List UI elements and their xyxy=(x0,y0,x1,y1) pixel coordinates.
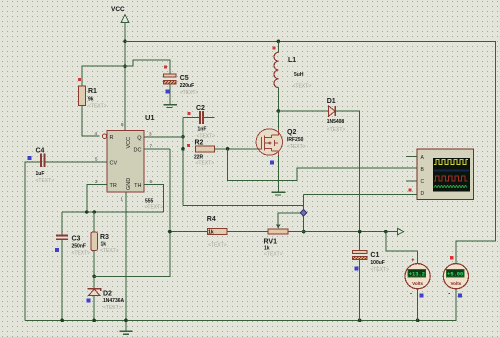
scope trace channel C red xyxy=(434,176,468,181)
node rail C1 xyxy=(358,319,362,323)
svg-text:-: - xyxy=(410,292,412,298)
wire drain node to D1 xyxy=(278,110,328,112)
svg-text:<TEXT>: <TEXT> xyxy=(208,243,227,249)
ground Q2 xyxy=(272,192,286,195)
wire R2 right to gate xyxy=(214,148,256,150)
svg-text:VCC: VCC xyxy=(111,6,125,13)
wire Q2 source to ground xyxy=(277,155,279,192)
svg-text:R2: R2 xyxy=(195,140,204,147)
svg-text:R: R xyxy=(110,135,114,141)
svg-text:C5: C5 xyxy=(180,75,189,82)
ground main xyxy=(120,331,133,334)
svg-text:-: - xyxy=(448,292,450,298)
svg-text:TR: TR xyxy=(110,183,117,189)
wire RV1 wiper xyxy=(278,213,304,228)
potentiometer RV1 xyxy=(264,213,288,258)
ground under C5 xyxy=(163,105,177,108)
svg-text:D1: D1 xyxy=(327,98,336,105)
node drain junction xyxy=(277,109,281,113)
wire VCC top rail to right edge xyxy=(125,41,495,263)
svg-text:1k: 1k xyxy=(101,242,107,248)
diode D2 zener xyxy=(87,276,125,311)
wire TR node horizontal xyxy=(62,211,163,213)
svg-text:C1: C1 xyxy=(370,252,379,259)
svg-text:IRF250: IRF250 xyxy=(287,137,304,143)
pin scope A stub xyxy=(406,156,417,158)
svg-text:RV1: RV1 xyxy=(264,239,278,246)
wire to scope D xyxy=(304,193,417,195)
node probe diamond xyxy=(300,210,306,216)
wire TH pin6 tie xyxy=(144,185,163,213)
capacitor C2 xyxy=(183,105,215,140)
svg-text:D: D xyxy=(421,191,425,197)
svg-text:<TEXT>: <TEXT> xyxy=(287,144,306,150)
pin 4 inversion bubble xyxy=(102,134,106,138)
wire C3 bottom to rail xyxy=(61,240,63,320)
node rail GND xyxy=(124,319,128,323)
wire Q column down xyxy=(182,117,184,205)
wire drain node to Q2 xyxy=(277,111,279,129)
wire feedback node to DC column xyxy=(94,149,170,277)
wire output feedback row xyxy=(170,231,398,233)
oscilloscope xyxy=(417,149,474,200)
svg-text:TH: TH xyxy=(134,183,141,189)
svg-text:1uF: 1uF xyxy=(36,171,45,177)
svg-text:250nF: 250nF xyxy=(72,244,86,250)
scope trace channel D green xyxy=(434,186,467,188)
node probe to output wire junction xyxy=(302,230,306,234)
transistor Q2 xyxy=(256,129,306,165)
power symbol VCC xyxy=(111,6,129,30)
svg-text:<TEXT>: <TEXT> xyxy=(100,248,119,254)
wire R1 bottom to pin4 xyxy=(82,105,100,136)
svg-text:<TEXT>: <TEXT> xyxy=(370,267,389,273)
svg-text:C3: C3 xyxy=(72,236,81,243)
svg-text:C: C xyxy=(421,179,425,185)
node VCC junction top rail xyxy=(123,40,127,44)
voltmeter right xyxy=(443,256,468,297)
svg-text:5uH: 5uH xyxy=(294,72,304,78)
node VCC junction R1/C5 branch xyxy=(123,64,127,68)
svg-text:L1: L1 xyxy=(288,57,296,64)
wire GND pin1 down xyxy=(125,192,127,331)
svg-text:Volts: Volts xyxy=(450,281,461,286)
node R4 left junction xyxy=(168,230,172,234)
pin scope B stub xyxy=(406,167,417,169)
wire DC pin7 xyxy=(144,148,170,150)
svg-text:C4: C4 xyxy=(36,148,45,155)
svg-text:D2: D2 xyxy=(103,291,112,298)
svg-text:+5.00: +5.00 xyxy=(447,272,463,278)
node rail voltmeter xyxy=(416,319,420,323)
wire branch to R1 xyxy=(82,66,125,86)
svg-text:<TEXT>: <TEXT> xyxy=(293,84,312,90)
svg-text:GND: GND xyxy=(126,178,132,190)
node Q junction xyxy=(181,135,185,139)
svg-text:Q2: Q2 xyxy=(287,129,296,136)
capacitor C1 xyxy=(353,250,389,273)
wire bottom rail xyxy=(25,289,456,321)
svg-text:R4: R4 xyxy=(207,216,216,223)
inductor L1 xyxy=(273,40,311,90)
wire left voltmeter minus to rail xyxy=(417,289,419,321)
svg-text:<TEXT>: <TEXT> xyxy=(327,127,346,133)
svg-text:C2: C2 xyxy=(196,105,205,112)
wire TR pin2 to node xyxy=(87,185,107,213)
svg-text:9k: 9k xyxy=(88,97,94,103)
svg-text:<TEXT>: <TEXT> xyxy=(88,104,107,110)
wire C5 to ground xyxy=(169,84,171,105)
scope trace channel B blue xyxy=(434,170,469,172)
svg-text:U1: U1 xyxy=(145,113,155,122)
pin scope D stub xyxy=(406,193,417,195)
svg-text:Q: Q xyxy=(137,135,142,141)
node gate junction xyxy=(226,147,230,151)
svg-text:100uF: 100uF xyxy=(370,260,384,266)
node rail C3 xyxy=(60,319,64,323)
svg-text:<TEXT>: <TEXT> xyxy=(36,178,55,184)
svg-text:DC: DC xyxy=(134,147,142,153)
svg-text:1nF: 1nF xyxy=(198,127,207,133)
svg-text:VCC: VCC xyxy=(126,137,132,149)
wire Q pin3 xyxy=(144,136,183,138)
svg-text:R3: R3 xyxy=(100,234,109,241)
node voltmeter branch junction xyxy=(384,230,388,234)
svg-text:1k: 1k xyxy=(208,230,214,236)
svg-text:<TEXT>: <TEXT> xyxy=(196,161,215,167)
resistor R4 xyxy=(207,216,227,249)
node R2 left junction xyxy=(181,147,185,151)
resistor R3 xyxy=(91,212,119,254)
svg-text:+: + xyxy=(411,258,414,264)
svg-text:22R: 22R xyxy=(194,154,204,160)
wire to left voltmeter plus xyxy=(386,232,418,264)
capacitor C3 xyxy=(55,212,90,257)
node rail D2 xyxy=(92,319,96,323)
svg-text:CV: CV xyxy=(110,160,118,166)
wire D1 cathode to output column xyxy=(335,111,359,250)
svg-text:<TEXT>: <TEXT> xyxy=(264,252,283,258)
capacitor C5 xyxy=(163,65,198,96)
svg-text:<TEXT>: <TEXT> xyxy=(180,90,199,96)
wire C4 left to bottom rail xyxy=(25,162,40,320)
svg-text:220uF: 220uF xyxy=(180,83,194,89)
wire VCC stem to U1 pin8 xyxy=(124,23,126,131)
op-amp U1 555 timer body xyxy=(107,113,163,211)
svg-text:<TEXT>: <TEXT> xyxy=(103,305,122,311)
wire probe column vertical xyxy=(303,194,305,231)
wire branch to C5 xyxy=(125,60,170,74)
wire L1 bottom to drain node xyxy=(277,88,279,111)
svg-text:R1: R1 xyxy=(88,88,97,95)
wire D2 bottom to rail xyxy=(93,295,95,320)
scope trace channel A yellow xyxy=(434,160,468,165)
svg-text:Volts: Volts xyxy=(412,281,423,286)
node TR junction R3 xyxy=(92,210,96,214)
svg-text:1N5408: 1N5408 xyxy=(327,119,345,125)
svg-text:+13.2: +13.2 xyxy=(409,272,425,278)
node TR junction pin2 xyxy=(85,210,89,214)
svg-text:<TEXT>: <TEXT> xyxy=(72,251,91,257)
wire C1 bottom to rail xyxy=(359,260,361,321)
wire gate node to scope B xyxy=(228,149,417,180)
svg-text:<TEXT>: <TEXT> xyxy=(145,205,164,211)
capacitor C4 xyxy=(28,148,55,185)
voltmeter left xyxy=(405,258,430,298)
pin scope C stub xyxy=(406,180,417,182)
node output column junction xyxy=(358,230,362,234)
resistor R2 xyxy=(187,140,215,167)
svg-text:1N4736A: 1N4736A xyxy=(103,298,125,304)
wire Q column to probe column xyxy=(183,205,304,207)
node R3/D2 junction xyxy=(92,275,96,279)
diode D1 xyxy=(327,98,346,133)
terminal output arrow xyxy=(398,228,404,235)
wire C4 right to CV pin5 xyxy=(46,161,108,163)
resistor R1 xyxy=(78,78,106,110)
wire R3 bottom to node xyxy=(93,251,95,277)
